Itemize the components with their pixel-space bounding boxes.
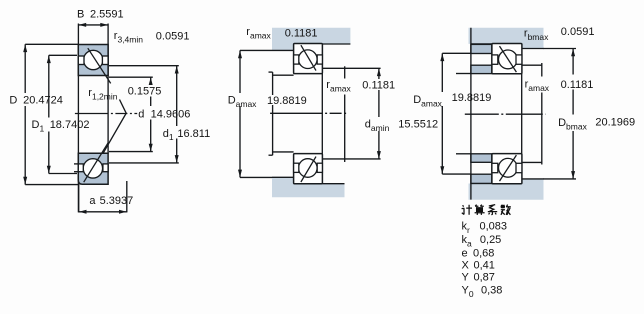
hanzi ji bbox=[462, 205, 472, 215]
housing strip top bbox=[272, 28, 350, 51]
svg-text:0,41: 0,41 bbox=[474, 259, 495, 271]
dim Damax2 extension bottom bbox=[442, 173, 471, 175]
dim Damax2 extension top bbox=[442, 52, 471, 54]
svg-text:r3,4min: r3,4min bbox=[114, 30, 143, 44]
housing bore line bottom bbox=[471, 182, 492, 184]
wire r12min leader bbox=[101, 100, 127, 158]
arrow D up bbox=[23, 45, 27, 53]
svg-text:Damax: Damax bbox=[413, 94, 442, 108]
shaft shoulder face bbox=[272, 72, 274, 95]
svg-text:19.8819: 19.8819 bbox=[267, 95, 307, 107]
dim damin extension bottom bbox=[322, 158, 381, 160]
raceway notch right bbox=[516, 55, 522, 64]
wire: right face extension line bbox=[107, 24, 109, 154]
arrow Damax2 up bbox=[440, 54, 444, 62]
wire: left face extension line bbox=[77, 24, 79, 213]
svg-text:ramax: ramax bbox=[246, 26, 271, 40]
svg-text:16.811: 16.811 bbox=[177, 128, 210, 140]
raceway notch left bbox=[294, 163, 299, 172]
shaft shoulder stub top bbox=[269, 71, 273, 73]
arrow d1 up bbox=[175, 66, 179, 74]
svg-text:ramax: ramax bbox=[525, 79, 550, 93]
dim d extension bottom bbox=[109, 151, 153, 153]
svg-text:0.1575: 0.1575 bbox=[128, 85, 162, 97]
svg-text:0.1181: 0.1181 bbox=[362, 80, 395, 92]
node centerline axis bbox=[270, 112, 347, 114]
dim D extension bottom bbox=[25, 184, 78, 186]
arrow d down bbox=[149, 144, 153, 152]
svg-text:0,87: 0,87 bbox=[474, 271, 495, 283]
housing bore line bottom bbox=[322, 183, 344, 185]
raceway notch right bbox=[102, 56, 108, 65]
svg-text:damin: damin bbox=[365, 119, 390, 133]
svg-text:0.1181: 0.1181 bbox=[285, 27, 318, 39]
shaft stub top bbox=[456, 73, 471, 75]
bearing section top (outer+inner ring) bbox=[78, 45, 110, 84]
arrow D1 down bbox=[47, 166, 51, 174]
svg-text:0,25: 0,25 bbox=[480, 234, 501, 246]
raceway notch left bbox=[294, 55, 299, 64]
svg-text:Y: Y bbox=[462, 271, 470, 283]
svg-text:14.9606: 14.9606 bbox=[151, 109, 191, 121]
dim a extension left bbox=[78, 182, 80, 212]
arrow d1 down bbox=[175, 155, 179, 163]
svg-text:d1: d1 bbox=[163, 128, 174, 142]
housing strip bottom bbox=[469, 179, 544, 200]
dim D1 extension bottom bbox=[49, 173, 77, 175]
svg-text:e: e bbox=[462, 247, 468, 259]
arrow Damax up bbox=[238, 51, 242, 59]
svg-text:kr: kr bbox=[462, 221, 471, 235]
svg-text:Damax: Damax bbox=[228, 95, 257, 109]
contact angle line bbox=[301, 157, 316, 182]
abutment collar outer top bbox=[471, 44, 492, 53]
raceway notch right bbox=[516, 163, 522, 172]
dim Dbmax line bbox=[572, 49, 574, 75]
arrow d up bbox=[149, 77, 153, 85]
raceway notch right bbox=[103, 164, 108, 172]
left faces line bbox=[470, 28, 472, 200]
abutment collar outer bottom bbox=[471, 174, 492, 183]
dim a line bbox=[79, 211, 127, 213]
contact angle line bottom bbox=[84, 142, 109, 182]
housing shoulder surface bottom bbox=[522, 178, 544, 180]
contact angle line bbox=[500, 155, 517, 181]
dim damin line bbox=[378, 68, 380, 79]
bearing section top bbox=[492, 44, 522, 74]
svg-text:0,083: 0,083 bbox=[480, 221, 508, 233]
dim B line bbox=[78, 24, 108, 26]
svg-text:20.4724: 20.4724 bbox=[23, 95, 63, 107]
arrow a right bbox=[119, 210, 127, 214]
housing shoulder surface bottom bbox=[272, 176, 294, 178]
svg-text:Dbmax: Dbmax bbox=[558, 117, 587, 131]
dim Damax extension bottom bbox=[240, 176, 272, 178]
housing bore line top bbox=[322, 43, 350, 45]
dim Dbmax extension top bbox=[543, 48, 576, 50]
hanzi xi bbox=[488, 205, 497, 215]
hanzi shu bbox=[501, 205, 511, 215]
arrow D1 up bbox=[47, 56, 51, 64]
collar line right bottom bbox=[522, 161, 542, 163]
svg-text:2.5591: 2.5591 bbox=[90, 9, 124, 21]
svg-text:r1,2min: r1,2min bbox=[88, 87, 117, 101]
contact angle line bbox=[301, 45, 316, 70]
node centerline axis bbox=[75, 113, 137, 115]
node centerline axis bbox=[465, 113, 546, 115]
shaft stub bottom bbox=[456, 153, 471, 155]
raceway notch left bbox=[492, 55, 498, 64]
dim a extension right bbox=[126, 181, 128, 212]
dim Dbmax extension bottom bbox=[543, 178, 576, 180]
dim D1 extension top bbox=[49, 54, 77, 56]
dim d1 extension bottom bbox=[109, 162, 179, 164]
svg-text:B: B bbox=[77, 9, 84, 21]
bearing right face line through gap bbox=[521, 74, 523, 154]
arrow Dbmax up bbox=[571, 49, 575, 57]
arrow B right bbox=[100, 23, 108, 27]
dim D extension top bbox=[25, 43, 78, 45]
dim D1 line bbox=[48, 55, 50, 117]
ball bottom bbox=[83, 159, 102, 178]
svg-text:D: D bbox=[9, 95, 17, 107]
ball top bbox=[499, 50, 518, 69]
housing shoulder surface top bbox=[522, 48, 544, 50]
housing strip top bbox=[469, 28, 544, 49]
svg-text:ka: ka bbox=[462, 234, 473, 248]
contact angle line top bbox=[88, 48, 111, 83]
svg-text:d: d bbox=[138, 109, 144, 121]
raceway notch left bbox=[78, 164, 83, 172]
raceway notch right bbox=[317, 55, 322, 64]
svg-text:X: X bbox=[462, 259, 470, 271]
svg-text:D1: D1 bbox=[32, 119, 45, 133]
contact angle line bbox=[500, 46, 517, 72]
svg-text:5.3937: 5.3937 bbox=[100, 195, 134, 207]
dim d1 line bbox=[176, 66, 178, 126]
arrow B left bbox=[79, 23, 87, 27]
arrow Dbmax down bbox=[571, 171, 575, 179]
dim d1 extension top bbox=[109, 65, 179, 67]
arrow D down bbox=[23, 177, 27, 185]
arrow a left bbox=[79, 210, 87, 214]
ball top bbox=[299, 50, 318, 69]
arrow Damax2 down bbox=[440, 166, 444, 174]
bearing section bottom bbox=[492, 154, 522, 184]
dim d line bbox=[150, 77, 152, 85]
collar line right top bbox=[522, 64, 542, 66]
arrow damin down bbox=[377, 151, 381, 159]
shaft end face bbox=[344, 66, 346, 78]
raceway notch right bbox=[317, 163, 322, 172]
arrow damin up bbox=[377, 69, 381, 77]
svg-text:0.1181: 0.1181 bbox=[561, 79, 594, 91]
svg-text:Y0: Y0 bbox=[462, 285, 474, 299]
hanzi suan bbox=[475, 205, 485, 215]
housing shoulder surface top bbox=[272, 49, 294, 51]
abutment collar inner top bbox=[471, 65, 492, 73]
dim Damax line bbox=[239, 50, 241, 93]
notch edge stub lower bbox=[74, 171, 78, 173]
housing bore line top bbox=[471, 43, 492, 45]
arrow Damax down bbox=[238, 170, 242, 178]
svg-text:20.1969: 20.1969 bbox=[595, 117, 635, 129]
svg-text:a: a bbox=[89, 195, 96, 207]
bearing right face line through gap bbox=[321, 74, 323, 154]
shaft shoulder stub bottom bbox=[269, 154, 273, 156]
housing strip bottom bbox=[272, 177, 345, 197]
dim d extension top bbox=[109, 76, 153, 78]
svg-text:19.8819: 19.8819 bbox=[452, 92, 492, 104]
dim Damax extension top bbox=[240, 49, 272, 51]
shaft seat line bottom bbox=[273, 151, 294, 153]
svg-text:0,68: 0,68 bbox=[473, 247, 494, 259]
svg-text:0.0591: 0.0591 bbox=[156, 30, 190, 42]
svg-text:0,38: 0,38 bbox=[481, 285, 502, 297]
dim D line bbox=[24, 44, 26, 93]
svg-text:15.5512: 15.5512 bbox=[398, 118, 438, 130]
ball top bbox=[84, 50, 103, 69]
bearing section bottom bbox=[294, 154, 323, 184]
svg-text:0.0591: 0.0591 bbox=[561, 26, 595, 38]
svg-text:18.7402: 18.7402 bbox=[50, 119, 90, 131]
raceway notch left bbox=[78, 56, 84, 65]
label table title (hanzi drawn as paths) bbox=[462, 205, 511, 215]
notch edge stub upper bbox=[74, 163, 78, 165]
ball bottom bbox=[499, 158, 518, 177]
abutment collar inner bottom bbox=[471, 154, 492, 163]
svg-text:ramax: ramax bbox=[326, 79, 351, 93]
raceway notch left bbox=[492, 163, 498, 172]
collar end face right bbox=[541, 63, 543, 77]
bearing section bottom (outer+inner ring) bbox=[78, 142, 108, 184]
dim Damax2 line bbox=[441, 53, 443, 92]
shaft seat line top bbox=[273, 74, 294, 76]
dim damin extension top bbox=[322, 67, 381, 69]
ball bottom bbox=[299, 159, 318, 178]
bearing section top bbox=[294, 44, 323, 74]
